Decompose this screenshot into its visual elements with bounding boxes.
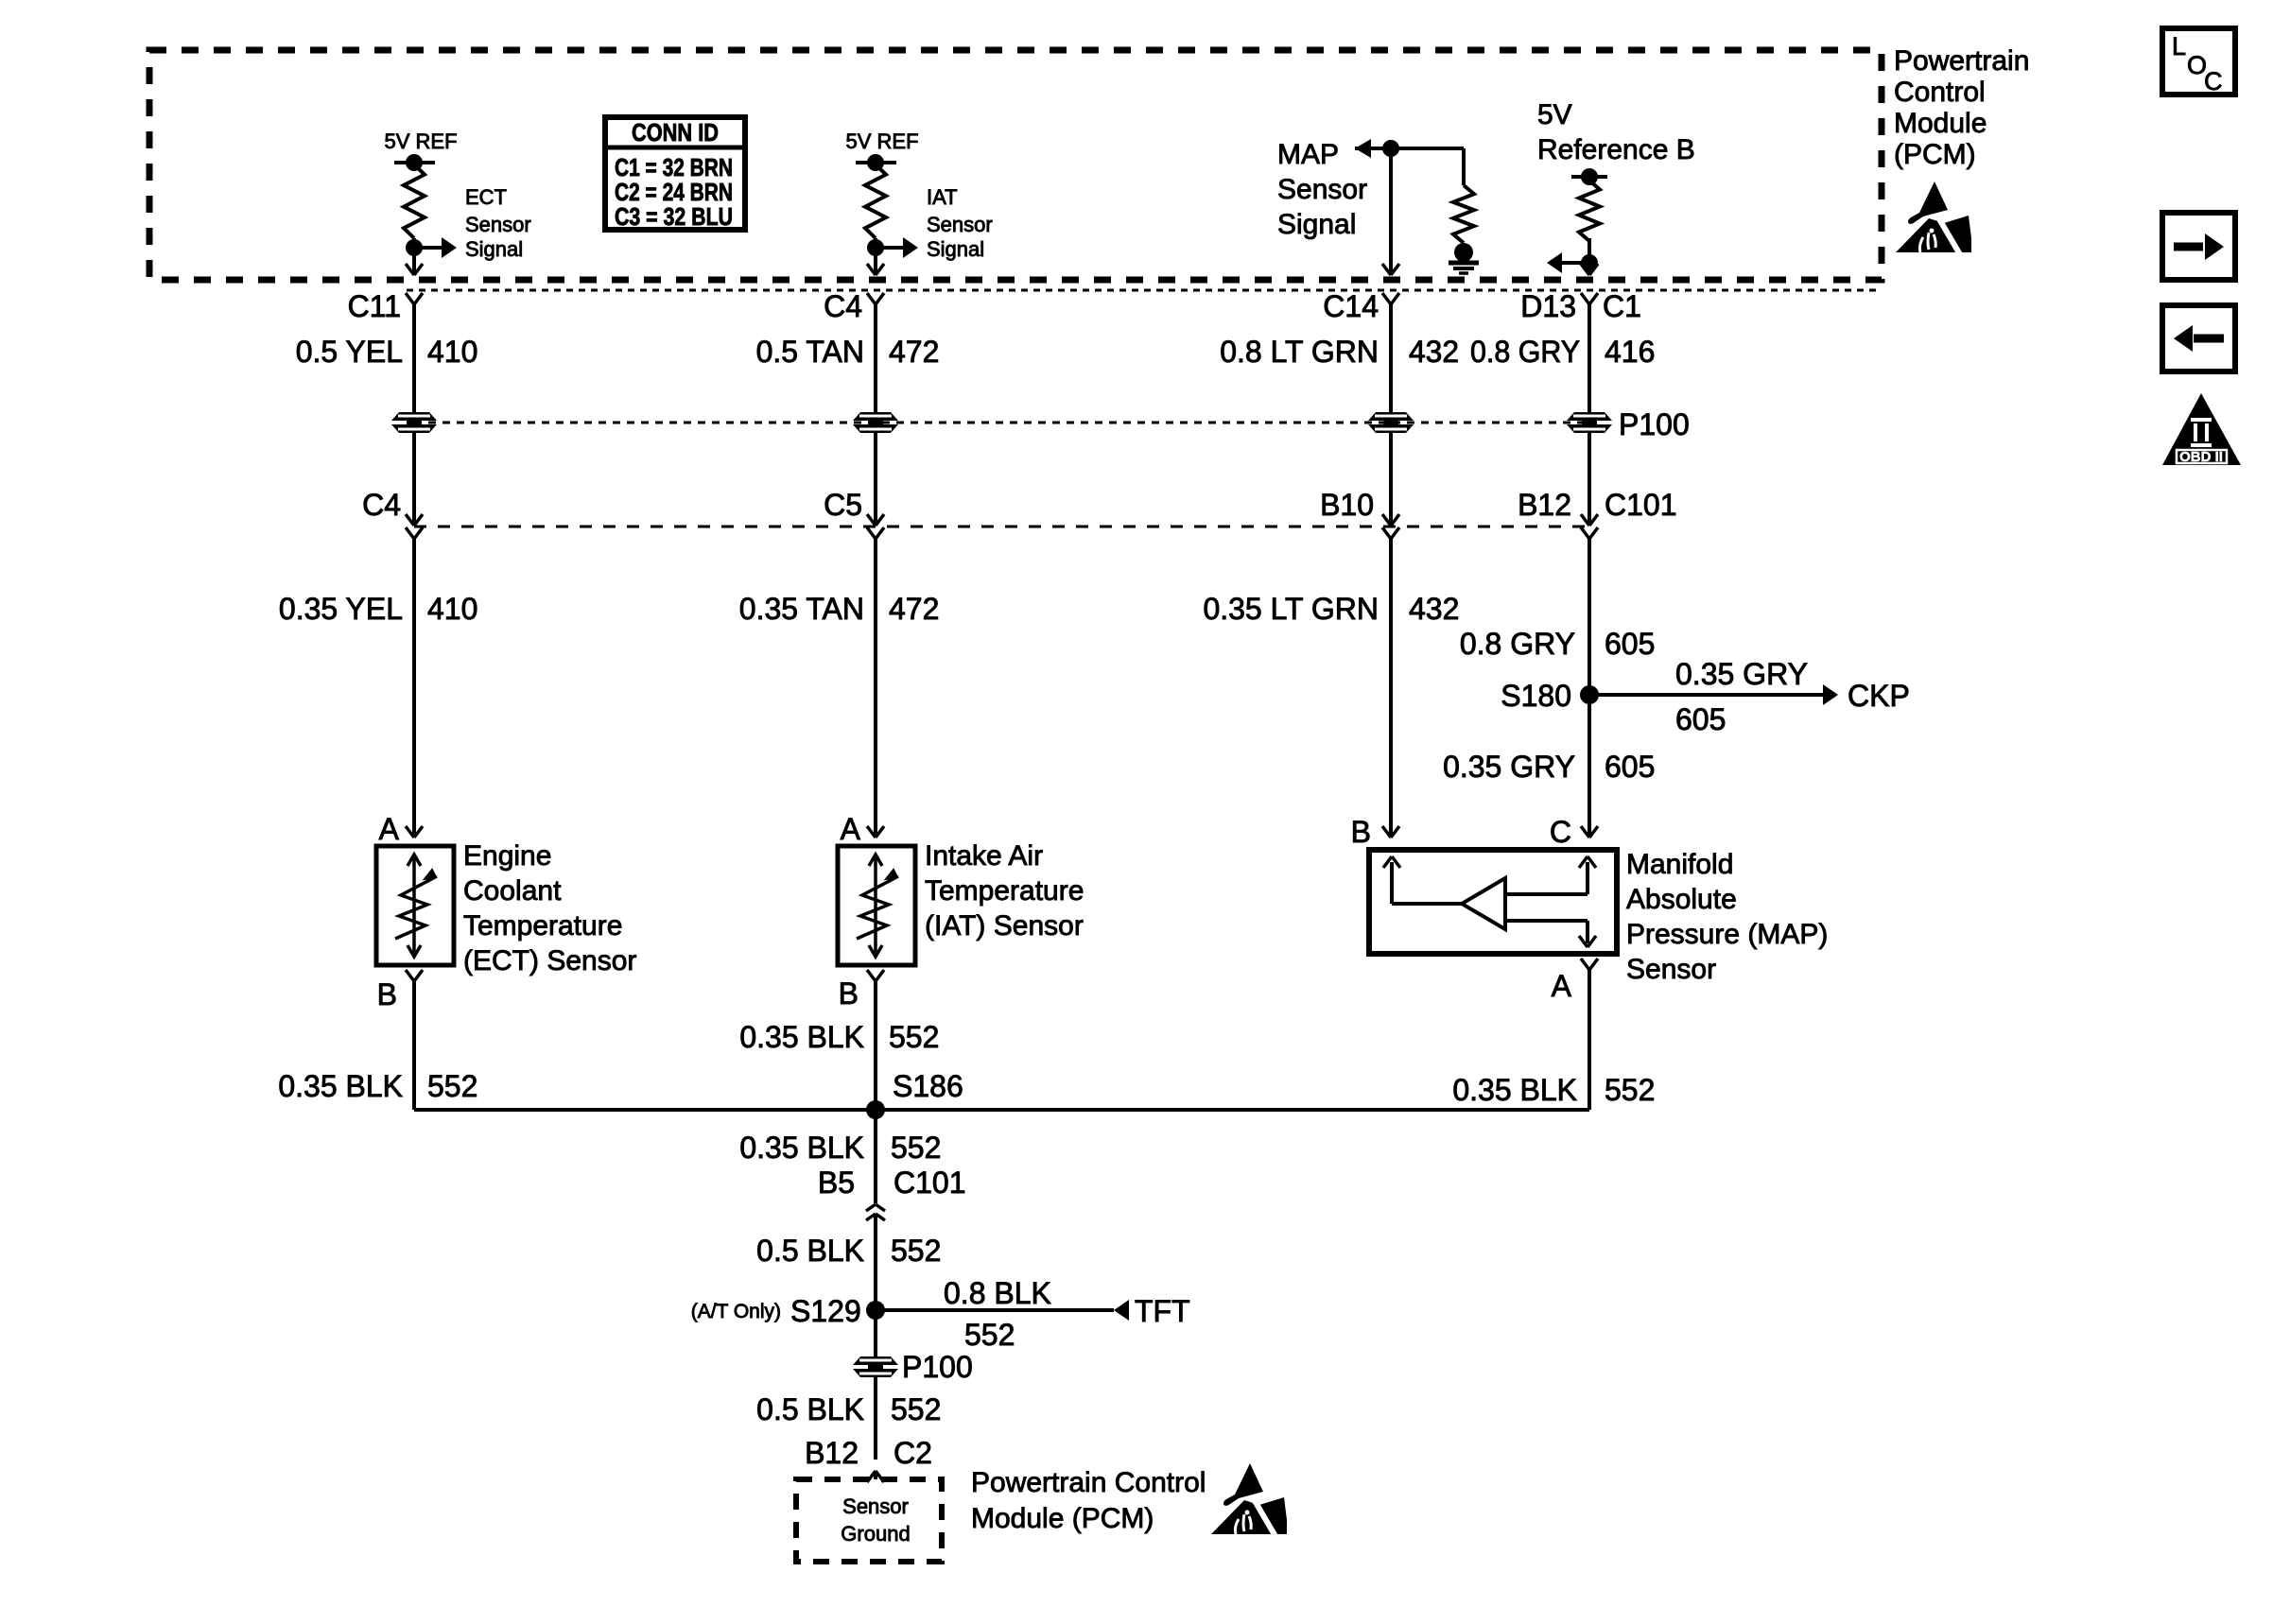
svg-text:Ground: Ground [841,1522,910,1546]
arrow up C in MAP [1579,856,1596,868]
svg-text:P100: P100 [902,1350,973,1384]
wire IAT signal arrow [876,237,918,258]
pin label D13 [1520,289,1576,323]
svg-text:Signal: Signal [927,237,984,261]
wire ECT resistor to junction [412,238,416,248]
svg-text:0.8 GRY: 0.8 GRY [1470,335,1580,369]
svg-text:Manifold: Manifold [1626,849,1733,880]
wire ECT signal arrow [414,237,457,258]
svg-text:Signal: Signal [465,237,523,261]
svg-text:0.35 BLK: 0.35 BLK [739,1020,864,1054]
svg-text:C14: C14 [1323,289,1379,323]
svg-text:Sensor: Sensor [465,213,531,236]
resistor IAT pull-up [865,164,886,238]
label 0.8 GRY 416 [1470,335,1655,369]
svg-text:B5: B5 [818,1166,855,1200]
svg-text:C4: C4 [362,488,401,522]
wire IAT B to S186 [874,981,877,1110]
wire P100 to B12 [874,1377,877,1460]
svg-text:Control: Control [1894,77,1986,108]
label 0.5 BLK 552 (above S129) [756,1234,941,1268]
wire MAP C101 to sensor [1389,539,1393,838]
svg-text:0.5 YEL: 0.5 YEL [296,335,403,369]
pin chevrons ECT at C101 [406,514,423,539]
wire 5V ref B stub [1571,175,1607,179]
svg-text:(IAT) Sensor: (IAT) Sensor [925,910,1084,942]
svg-text:5V REF: 5V REF [384,130,457,153]
svg-text:Module (PCM): Module (PCM) [971,1503,1154,1534]
label 0.5 BLK 552 (below P100) [756,1392,941,1426]
svg-text:IAT: IAT [927,185,958,209]
svg-text:B: B [377,977,397,1011]
pin chevron MAP below PCM face [1382,293,1399,526]
resistor 5V ref B [1579,181,1600,241]
svg-text:(ECT) Sensor: (ECT) Sensor [463,945,636,976]
svg-text:TFT: TFT [1135,1294,1190,1328]
label CKP [1848,679,1910,713]
Sensor Ground dashed box [796,1479,942,1562]
pin label C1 [1603,289,1641,323]
label 605 (CKP) [1675,702,1726,736]
icon OBD II triangle [2162,393,2241,465]
svg-text:C: C [1550,815,1571,849]
pin label B12 (bottom) [805,1436,859,1470]
svg-text:605: 605 [1605,627,1655,661]
pin chevrons GRY at C101 [1581,514,1598,539]
label 5V Reference B [1537,99,1695,165]
svg-text:472: 472 [889,335,939,369]
svg-text:C2: C2 [894,1436,932,1470]
node 5V REF dot (ECT) [406,154,423,171]
label 0.35 GRY 605 [1443,750,1655,784]
svg-text:A: A [841,812,861,846]
label 552 (TFT) [964,1318,1015,1352]
node S180 splice [1501,679,1599,713]
ground MAP pulldown [1449,263,1479,273]
wire ECT down to PCM border [406,248,423,275]
svg-text:CONN ID: CONN ID [632,118,719,147]
IAT sensor box [838,846,915,965]
node MAP signal dot [1382,140,1399,157]
resistor MAP pull-down [1453,185,1474,243]
wire S129 to TFT [876,1300,1129,1321]
label P100 (top) [1619,407,1690,441]
label MAP Sensor Signal [1277,139,1367,240]
svg-text:C1: C1 [1603,289,1641,323]
label 0.8 BLK (TFT) [944,1276,1051,1310]
svg-text:5V: 5V [1537,99,1572,130]
svg-text:OBD II: OBD II [2179,449,2223,465]
svg-text:432: 432 [1409,335,1459,369]
svg-text:605: 605 [1605,750,1655,784]
label IAT Sensor Signal [927,185,993,261]
pin label C4 (C101) [362,488,401,522]
svg-text:0.35 LT GRN: 0.35 LT GRN [1203,592,1379,626]
connector P100 grommet on ECT wire [391,412,437,433]
wire IAT resistor to junction [874,238,877,248]
ECT sensor box [376,846,454,965]
wire 5V REF stub (ECT) [394,161,435,164]
svg-text:472: 472 [889,592,939,626]
svg-text:D13: D13 [1520,289,1576,323]
pin label A (IAT) [841,812,861,846]
label Engine Coolant Temperature (ECT) Sensor [463,840,636,976]
label ECT Sensor Signal [465,185,531,261]
node MAP pulldown ground dot [1454,243,1473,262]
icon arrow-left box [2162,305,2235,371]
pin label B (IAT) [839,976,859,1011]
svg-text:B12: B12 [1518,488,1571,522]
node 5V ref B dot [1581,168,1598,185]
pin label B (MAP) [1351,815,1371,849]
wire 5VrefB resistor to junction [1588,238,1591,263]
icon ESD logo top [1896,181,1971,256]
svg-text:C4: C4 [824,289,862,323]
svg-text:0.35 YEL: 0.35 YEL [279,592,403,626]
svg-text:0.5 BLK: 0.5 BLK [756,1234,864,1268]
svg-text:432: 432 [1409,592,1459,626]
icon LOC box [2162,28,2235,95]
svg-text:C: C [2204,67,2223,95]
wire S180 to CKP [1589,684,1838,705]
label 0.35 LT GRN 432 [1203,592,1459,626]
pin chevrons MAP at C101 [1382,514,1399,539]
resistor ECT pull-up [404,164,425,238]
pin label C101 (top) [1605,488,1677,522]
wire ECT B to bus [412,981,416,1110]
pin chevron B12/C2 [867,1471,884,1482]
icon arrow-right box [2162,213,2235,280]
pin label C11 [348,289,401,323]
svg-text:Sensor: Sensor [1277,174,1367,205]
wire C101 to S129 [874,1214,877,1358]
pin label C101 (bottom) [894,1166,966,1200]
pin chevron B MAP [1382,826,1399,838]
MAP sensor box [1369,850,1617,954]
pin label C14 [1323,289,1379,323]
label S186 [893,1069,963,1103]
wire MAP A to bus [1588,970,1591,1110]
svg-text:A: A [379,812,400,846]
svg-text:0.35 GRY: 0.35 GRY [1675,657,1808,691]
svg-text:C101: C101 [1605,488,1677,522]
label Powertrain Control Module (PCM) bottom [971,1467,1206,1534]
label 0.35 BLK 552 (below S186) [739,1131,941,1165]
pin label B5 [818,1166,855,1200]
net 5V REF (IAT) label [845,130,918,153]
pin label B12 (top) [1518,488,1571,522]
svg-text:C101: C101 [894,1166,966,1200]
pin label C (MAP) [1550,815,1571,849]
label 0.8 LT GRN 432 [1220,335,1459,369]
svg-text:552: 552 [891,1392,941,1426]
pin chevron B ECT [406,970,423,981]
svg-text:ECT: ECT [465,185,507,209]
label 0.35 BLK 552 (IAT) [739,1020,939,1054]
svg-text:Pressure (MAP): Pressure (MAP) [1626,919,1828,950]
svg-text:Sensor: Sensor [927,213,993,236]
connector C101 dashed line [414,526,1589,528]
svg-text:410: 410 [427,335,477,369]
connector C101 chevrons (bottom) [866,1204,885,1220]
pin label C2 [894,1436,932,1470]
wire MAP signal line [1355,139,1464,158]
wire MAP down to PCM border [1382,148,1399,275]
pin chevrons IAT at C101 [867,514,884,539]
svg-text:0.8 BLK: 0.8 BLK [944,1276,1051,1310]
pin label B (ECT) [377,977,397,1011]
svg-text:Signal: Signal [1277,209,1356,240]
svg-text:S186: S186 [893,1069,963,1103]
svg-text:552: 552 [889,1020,939,1054]
thermistor IAT [857,855,898,957]
pin chevron A MAP [1581,959,1598,970]
svg-text:B: B [1351,815,1371,849]
connector P100 grommet on MAP wire [1368,412,1414,433]
label 0.35 TAN 472 [739,592,940,626]
label 0.35 YEL 410 [279,592,477,626]
connector P100 grommet (bottom) [853,1356,898,1377]
svg-text:Temperature: Temperature [925,875,1084,907]
pin label C4 (PCM) [824,289,862,323]
svg-text:416: 416 [1605,335,1655,369]
pin chevron A ECT [406,826,423,838]
svg-text:552: 552 [1605,1073,1655,1107]
label Powertrain Control Module (PCM) [1894,45,2029,170]
label (A/T Only) [691,1301,781,1322]
svg-text:605: 605 [1675,702,1726,736]
wire ground bus [414,1108,1589,1112]
wire 5V REF stub (IAT) [856,161,896,164]
wire IAT C101 to sensor [874,539,877,838]
svg-text:Intake Air: Intake Air [925,840,1043,872]
svg-text:CKP: CKP [1848,679,1910,713]
pin label A (MAP) [1552,969,1572,1003]
net 5V REF (ECT) label [384,130,457,153]
CONN ID table [605,117,745,231]
svg-text:0.5 TAN: 0.5 TAN [756,335,864,369]
PCM dashed box (top) [149,50,1882,280]
svg-text:C5: C5 [824,488,862,522]
svg-text:A: A [1552,969,1572,1003]
thermistor ECT [395,855,437,957]
svg-text:Sensor: Sensor [1626,954,1716,985]
arrow down A in MAP [1579,936,1596,947]
svg-text:B12: B12 [805,1436,859,1470]
label Intake Air Temperature (IAT) Sensor [925,840,1084,942]
svg-text:0.35 GRY: 0.35 GRY [1443,750,1575,784]
pin chevron C MAP [1581,826,1598,838]
svg-text:Sensor: Sensor [842,1494,909,1518]
label Manifold Absolute Pressure (MAP) Sensor [1626,849,1828,985]
svg-text:P100: P100 [1619,407,1690,441]
wire S186 down [874,1110,877,1203]
label Sensor Ground [841,1494,910,1546]
node ECT signal junction [406,239,423,256]
svg-text:Absolute: Absolute [1626,884,1737,915]
svg-text:0.35 TAN: 0.35 TAN [739,592,864,626]
pin chevron B IAT [867,970,884,981]
label TFT [1135,1294,1190,1328]
svg-text:552: 552 [964,1318,1015,1352]
node IAT signal junction [867,239,884,256]
svg-text:Powertrain: Powertrain [1894,45,2029,77]
label 0.35 BLK 552 (ECT) [278,1069,477,1103]
svg-text:B10: B10 [1320,488,1374,522]
wire GRY C101 to S180 [1588,539,1591,838]
label 0.5 YEL 410 [296,335,478,369]
icon ESD logo bottom [1211,1463,1287,1538]
svg-text:Coolant: Coolant [463,875,562,907]
connector P100 grommet on GRY wire [1567,412,1612,433]
label P100 (bottom) [902,1350,973,1384]
label 0.8 GRY 605 [1460,627,1656,661]
svg-text:Engine: Engine [463,840,551,872]
connector face dashed line C1/C2 [407,289,1880,292]
svg-text:Module: Module [1894,108,1987,139]
svg-text:S129: S129 [790,1294,861,1328]
op-amp MAP buffer [1392,862,1588,943]
svg-text:C3 = 32 BLU: C3 = 32 BLU [615,202,733,231]
svg-text:MAP: MAP [1277,139,1339,170]
wire 5VrefB left arrow [1547,252,1589,273]
svg-text:0.35 BLK: 0.35 BLK [1452,1073,1577,1107]
svg-text:B: B [839,976,859,1011]
pin chevron 5VrefB below PCM face [1581,293,1598,526]
svg-text:0.8 LT GRN: 0.8 LT GRN [1220,335,1379,369]
svg-text:S180: S180 [1501,679,1571,713]
svg-text:552: 552 [427,1069,477,1103]
pin chevron IAT below PCM face [867,293,884,526]
wire ECT C101 to sensor [412,539,416,838]
wire IAT down to PCM border [867,248,884,275]
node 5VrefB junction [1581,254,1598,271]
svg-text:0.8 GRY: 0.8 GRY [1460,627,1575,661]
svg-text:552: 552 [891,1131,941,1165]
pin chevron ECT below PCM face [406,293,423,526]
svg-text:L: L [2172,32,2186,60]
svg-text:C11: C11 [348,289,401,323]
label 0.35 BLK 552 (MAP) [1452,1073,1655,1107]
svg-text:0.35 BLK: 0.35 BLK [278,1069,403,1103]
svg-text:552: 552 [891,1234,941,1268]
pin label B10 [1320,488,1374,522]
pin label A (ECT) [379,812,400,846]
P100 dashed line [414,422,1589,424]
label S129 [790,1294,861,1328]
svg-text:(A/T Only): (A/T Only) [691,1301,781,1322]
svg-text:5V REF: 5V REF [845,130,918,153]
node S129 splice [866,1301,885,1320]
label 0.5 TAN 472 [756,335,940,369]
node S186 splice [866,1100,885,1119]
wire MAP pulldown drop [1462,148,1466,185]
connector P100 grommet on IAT wire [853,412,898,433]
pin chevron A IAT [867,826,884,838]
wire into sensor ground [874,1471,877,1479]
svg-text:0.5 BLK: 0.5 BLK [756,1392,864,1426]
label 0.35 GRY (CKP) [1675,657,1808,691]
wire 5VrefB down to PCM border [1581,263,1598,275]
svg-text:Temperature: Temperature [463,910,622,942]
pin label C5 [824,488,862,522]
svg-text:Powertrain Control: Powertrain Control [971,1467,1206,1498]
svg-text:0.35 BLK: 0.35 BLK [739,1131,864,1165]
node 5V REF dot (IAT) [867,154,884,171]
arrow up B in MAP [1383,856,1400,868]
svg-text:410: 410 [427,592,477,626]
svg-text:(PCM): (PCM) [1894,139,1976,170]
svg-text:Reference B: Reference B [1537,134,1695,165]
